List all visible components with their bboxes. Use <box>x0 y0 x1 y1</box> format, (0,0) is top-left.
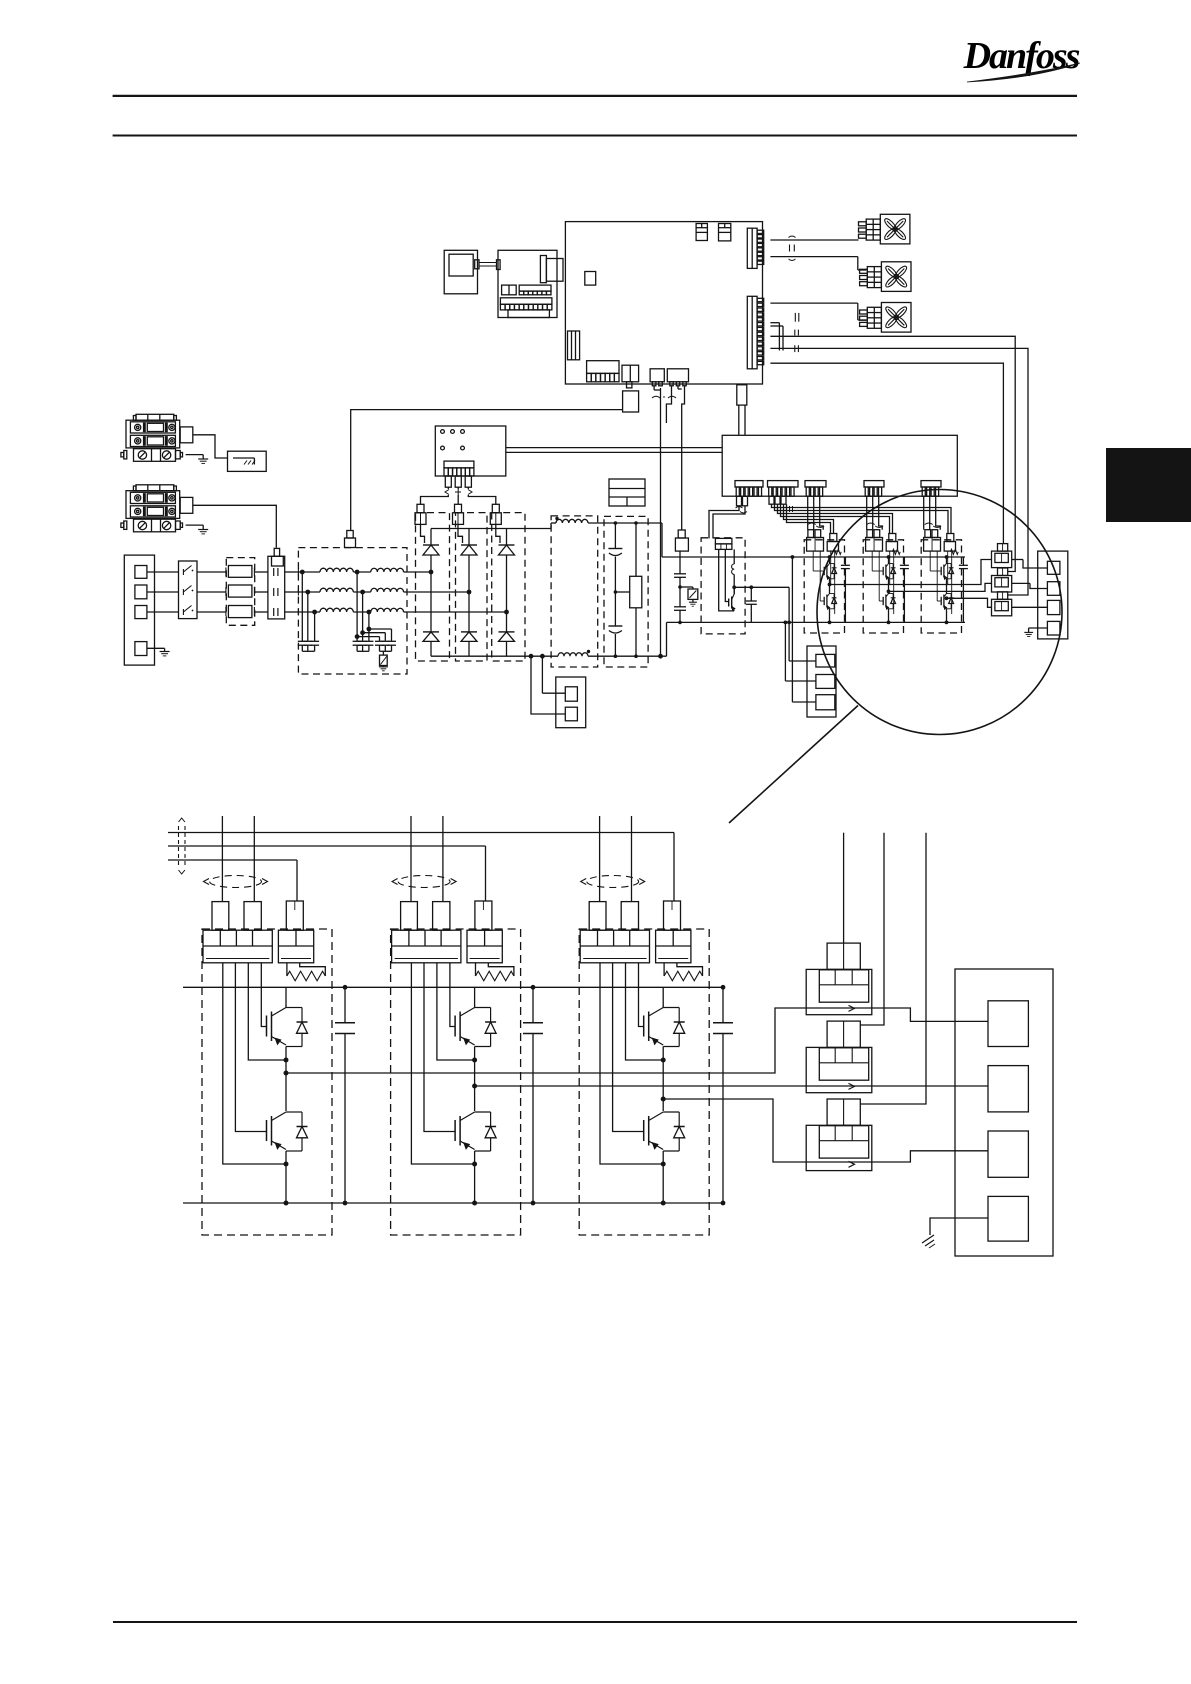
Danfoss logo <box>963 35 1080 82</box>
IGBT bottom module 1 <box>820 551 836 624</box>
choke 2 through wire <box>1012 583 1048 588</box>
snubber capacitor module 3 <box>959 557 968 622</box>
cooling fan M2 <box>860 262 911 292</box>
fuse FU1 <box>226 566 255 578</box>
card A2 connector <box>540 256 563 283</box>
gate resistor M1 <box>287 963 325 981</box>
wire L3 to disconnect <box>147 611 179 613</box>
brake output line <box>732 585 789 589</box>
card A2 strip 1 <box>502 285 517 295</box>
driver plug M1a <box>212 902 229 931</box>
gate ribbon bus 2 <box>168 845 486 847</box>
sensor supply wire 3 <box>860 833 926 1104</box>
card A2 strip 2 <box>519 285 551 295</box>
shunt wire b <box>529 654 566 714</box>
Y-cap group 2 <box>353 570 374 652</box>
A3 edge connector <box>568 331 580 360</box>
module 3 mid junction <box>946 581 948 594</box>
snubber capacitor module 2 <box>900 557 909 622</box>
module 1 gate wires down <box>808 496 824 530</box>
fan wire twist marker 1 <box>789 236 796 261</box>
DC bus capacitor C2 <box>608 521 622 658</box>
PE detail ground <box>922 1218 988 1248</box>
DC+ bus detail <box>183 986 723 988</box>
mains terminal block X1 <box>124 555 154 665</box>
driver plug M2a <box>401 902 418 931</box>
leg M1 midpoint <box>284 1047 289 1112</box>
gate resistor block M1 <box>278 930 313 963</box>
brake gate wires <box>719 549 735 611</box>
svg-text:Danfoss: Danfoss <box>963 35 1080 77</box>
module 1 mid junction <box>829 581 831 594</box>
wire c2 pair to module 2 <box>778 504 893 533</box>
ground F1 <box>186 455 209 464</box>
driver plug M1b <box>244 902 261 931</box>
brake current sensor box <box>807 646 836 717</box>
sensor T1 through line <box>806 1007 872 1009</box>
motor terminal block detail <box>955 969 1053 1256</box>
driver plug M3c <box>664 901 681 930</box>
DC- bus detail <box>183 1202 723 1204</box>
wire A3 to choke 3 <box>770 348 1028 595</box>
rectifier diode 3 <box>499 612 515 656</box>
wire c1 to brake plug a <box>709 506 739 539</box>
terminal PE <box>135 642 147 656</box>
DC- bus rectifier <box>431 655 558 657</box>
wire phase1 extension <box>407 571 431 573</box>
DC bus capacitor C1 <box>608 523 622 626</box>
A3 wire loop <box>770 323 783 351</box>
card A1 gate plugs <box>445 476 471 487</box>
RFI choke L2a <box>320 588 353 592</box>
terminal V <box>1047 582 1060 596</box>
sensor T1 output <box>872 1008 988 1021</box>
contactor contact pole 2 <box>274 588 278 596</box>
inverter DC+ bus <box>804 556 965 558</box>
control card A3 <box>565 222 762 384</box>
A3 comb s4 <box>667 369 688 389</box>
terminal V detail <box>988 1066 1028 1112</box>
gate ribbon bus 1 <box>168 832 674 834</box>
RFI phase line 2 <box>298 589 407 596</box>
driver plug M3a <box>589 902 606 931</box>
wire c1 to brake plug b <box>713 506 745 539</box>
wire L2 to disconnect <box>147 591 179 593</box>
rectifier module box 3 (dashed) <box>492 513 525 661</box>
soft charge contactor K1 <box>268 556 285 619</box>
leg M2 emitter <box>472 1151 477 1206</box>
gate wire to SCR2 <box>457 487 459 504</box>
phase W routing <box>663 1099 806 1162</box>
A3 right connector 1 <box>747 228 763 268</box>
contactor contact pole 1 <box>274 568 278 576</box>
wire pole3 to fuse <box>197 611 226 613</box>
A3 right connector 2 <box>747 296 763 369</box>
card A1 pads <box>441 430 465 450</box>
brake sense wire 2 <box>784 621 816 682</box>
brake chopper box (dashed) <box>701 538 745 634</box>
DC+ sense plug <box>675 386 688 551</box>
wire K1 pole1 to RFI <box>285 571 299 573</box>
current shunt module <box>556 677 586 728</box>
Y-cap group 3 feeders <box>355 627 392 642</box>
wire F2 to soft-charge contactor <box>193 505 276 548</box>
LCP keypad <box>444 250 477 293</box>
A3 connector grid 1 <box>696 224 707 241</box>
gate wire twist marker <box>445 489 472 496</box>
gate driver block M2 <box>392 930 461 963</box>
wire pole1 to fuse <box>197 571 226 573</box>
midpoint clamp capacitor Ca <box>674 551 686 587</box>
wire fuse1 out <box>255 571 268 573</box>
IGBT top M3 <box>644 1006 685 1047</box>
fuse FU2 <box>226 585 255 597</box>
A3 comb s2 <box>622 365 639 388</box>
brake collector choke <box>732 549 735 594</box>
motor terminal block X2 <box>1038 551 1068 639</box>
gate resistor M3 <box>664 963 702 981</box>
SCR 2 <box>458 524 477 592</box>
fuse FU3 <box>226 606 255 618</box>
driver plug M2b <box>433 902 450 931</box>
terminal W detail <box>988 1131 1028 1177</box>
wire fuse2 out <box>255 591 268 593</box>
phase W output <box>945 596 992 607</box>
driver plug M1c <box>286 901 303 930</box>
module M2 dashed box <box>391 929 521 1235</box>
balance resistor R2 <box>630 521 642 658</box>
card A2 strip 3 <box>500 298 552 310</box>
IGBT bottom M2 <box>455 1112 496 1151</box>
module M2 gate drop c <box>485 846 487 901</box>
detail magnifier circle <box>817 490 1062 735</box>
disconnect switch S1 <box>179 561 198 619</box>
sensor T2 output <box>872 1085 988 1087</box>
RFI phase line 3 <box>298 609 407 616</box>
wire c2 pair to module 3 <box>772 504 952 533</box>
terminal L2 <box>135 585 147 599</box>
leg M2 collector <box>474 987 476 1006</box>
module 1 gate resistor <box>834 549 842 554</box>
wire phase3 extension <box>407 611 507 613</box>
wire F1 to soft-charge resistor <box>193 435 228 458</box>
IGBT top module 3 <box>930 551 953 581</box>
module 2 gate wires down <box>867 496 883 530</box>
module M2 gate drop b <box>442 816 444 902</box>
terminal U <box>1047 561 1060 574</box>
wire K1 pole3 to RFI <box>285 611 299 613</box>
terminal L1 <box>135 566 147 579</box>
module 3 gate plug left <box>924 530 941 551</box>
phase U routing <box>286 1008 806 1073</box>
module 3 leg top <box>945 555 949 563</box>
phase V output <box>887 583 992 593</box>
module M3 dashed box <box>579 929 709 1235</box>
gate driver block M1 <box>203 930 272 963</box>
driver pins M1 <box>223 963 286 1164</box>
switch blade pole 1 <box>183 566 193 576</box>
gate resistor block M3 <box>656 930 691 963</box>
phase tap 2 <box>467 590 472 595</box>
ground F2 <box>186 525 209 534</box>
sensor T1 plug <box>827 943 860 969</box>
module M1 gate drop c <box>296 860 298 901</box>
terminal W <box>1047 600 1060 614</box>
IGBT bottom module 3 <box>937 551 953 624</box>
gate resistor M2 <box>476 963 514 981</box>
module M1 dashed box <box>202 929 332 1235</box>
current sensor T2 <box>806 1047 872 1092</box>
current sensor T3 <box>806 1125 872 1170</box>
module 2 gate resistor <box>893 549 901 554</box>
gate driver block M3 <box>580 930 649 963</box>
sensor supply wire 1 <box>843 833 845 943</box>
leg M1 emitter <box>284 1151 289 1206</box>
power card connector c4 <box>864 481 884 497</box>
DC choke L- winding <box>558 650 590 656</box>
module M2 twist ellipse <box>392 876 456 888</box>
module M2 gate drop a <box>410 816 412 902</box>
current sensor T1 <box>806 969 872 1014</box>
power card connector c3 <box>805 481 826 497</box>
detail pointer line <box>729 706 858 824</box>
leg M2 midpoint <box>472 1047 477 1112</box>
A3 comb s1 <box>587 361 619 382</box>
IGBT top module 1 <box>813 551 836 581</box>
power card connector c1 <box>735 481 763 497</box>
PE out ground <box>1024 628 1047 636</box>
LCP cable <box>475 260 500 270</box>
brake snubber capacitor <box>746 585 757 622</box>
cap midpoint tap <box>614 590 630 594</box>
clamp MOV <box>680 587 698 606</box>
wire A3 to choke 2 <box>770 336 1015 571</box>
contactor contact pole 3 <box>274 608 278 616</box>
DC link capacitor C1 detail <box>335 985 355 1206</box>
module 2 mid junction <box>888 581 890 594</box>
DC link capacitor C2 detail <box>523 985 543 1206</box>
wire A3 to choke 1 <box>770 363 1003 544</box>
mains fuse box (dashed) <box>226 558 254 626</box>
module 3 gate resistor <box>951 549 959 554</box>
module 1 leg top <box>828 555 832 563</box>
leg M3 midpoint <box>661 1047 666 1112</box>
SCR gate plug 1 <box>415 504 426 524</box>
gate wire to SCR1 <box>421 487 449 504</box>
output choke FB1 <box>992 544 1012 568</box>
A3 connector grid 2 <box>719 224 731 241</box>
sensor T2 plug <box>827 1021 860 1047</box>
brake driver plug <box>715 538 732 549</box>
leg M3 emitter <box>661 1151 666 1206</box>
power card connector c2 <box>768 481 799 497</box>
rectifier module box 2 (dashed) <box>456 513 488 661</box>
brake sense wire 1 <box>789 587 816 661</box>
c1 twist marker <box>736 507 748 514</box>
A3 comb s3 <box>650 369 664 390</box>
IGBT top module 2 <box>872 551 895 581</box>
fan M3 wire <box>770 303 866 320</box>
c2 twist marker <box>790 506 793 512</box>
module 2 emitter sense <box>890 551 894 614</box>
fuse block F2 (SMPS fuses) <box>121 485 193 532</box>
cooling fan M1 <box>859 214 910 244</box>
wire pole2 to fuse <box>197 591 226 593</box>
shunt wire a <box>540 654 565 693</box>
SCR gate plug 2 <box>453 504 464 524</box>
module 3 gate plug right <box>944 534 955 552</box>
module M3 twist ellipse <box>581 876 645 888</box>
wire K1 pole2 to RFI <box>285 591 299 593</box>
DC voltage sense wire b <box>666 386 671 423</box>
module M1 gate drop b <box>253 816 255 902</box>
card A2 strip 4 <box>508 310 549 318</box>
A3 chip <box>585 272 596 286</box>
module 3 plug twist marker <box>925 523 942 528</box>
driver pins M2 <box>411 963 474 1164</box>
brake IGBT Q7 <box>729 587 735 611</box>
RFI choke L3b <box>371 608 404 612</box>
DC link capacitor C3 detail <box>713 985 733 1206</box>
wire fuse3 out <box>255 611 268 613</box>
fan wire twist marker 3 <box>795 330 799 336</box>
module 1 plug twist marker <box>808 523 825 528</box>
module 2 gate plug right <box>886 534 897 552</box>
terminal U detail <box>988 1001 1028 1047</box>
fan M2 wire <box>770 257 866 270</box>
Y-cap group 3 <box>375 641 396 651</box>
gate wire to SCR3 <box>468 487 496 504</box>
sensor supply wire 2 <box>860 833 884 1025</box>
module M1 twist ellipse <box>204 876 268 888</box>
soft charge card A1 <box>435 426 506 476</box>
SCR 1 <box>421 524 440 572</box>
soft charge resistor R1 <box>228 451 267 471</box>
header rule 1 <box>113 95 1077 97</box>
module 1 gate plug left <box>807 530 824 551</box>
phase tap 3 <box>504 610 509 615</box>
rectifier diode 1 <box>423 572 439 656</box>
wire PE to ground <box>147 648 170 656</box>
IGBT top M2 <box>455 1006 496 1047</box>
sensor T3 through line <box>806 1161 872 1163</box>
rectifier module box 1 (dashed) <box>416 513 450 661</box>
gate resistor block M2 <box>467 930 502 963</box>
IGBT bottom module 2 <box>879 551 895 624</box>
sensor T3 plug <box>827 1099 860 1125</box>
module 3 gate wires down <box>924 496 941 530</box>
phase V routing <box>475 1085 806 1087</box>
phase tap 1 <box>429 570 434 575</box>
A3 aux box <box>623 391 639 412</box>
RFI choke L3a <box>320 608 353 612</box>
module 2 plug twist marker <box>867 523 884 528</box>
module 1 emitter sense <box>831 551 835 614</box>
module 1 gate plug right <box>827 534 838 552</box>
RFI choke L2b <box>371 588 404 592</box>
module 3 emitter sense <box>948 551 952 614</box>
RFI plug to control card <box>345 410 623 548</box>
RFI choke L1b <box>371 568 404 572</box>
DC- rail segment <box>588 622 804 656</box>
choke 1 through wire <box>1012 560 1048 569</box>
snubber capacitor module 1 <box>841 557 850 622</box>
DC+ rail to inverter <box>588 523 804 557</box>
SCR 3 <box>496 524 515 612</box>
leg M3 collector <box>662 987 664 1006</box>
driver pins M3 <box>600 963 663 1164</box>
power card A4 <box>722 435 957 496</box>
DC voltage sense wire a <box>658 388 663 659</box>
terminal L3 <box>135 606 147 619</box>
inverter DC- bus <box>804 621 965 623</box>
module 2 gate plug left <box>866 530 883 551</box>
card A1 bottom connector <box>444 461 474 476</box>
module M1 gate drop a <box>221 816 223 902</box>
module M3 gate drop b <box>631 816 633 902</box>
output choke FB3 <box>992 592 1012 616</box>
driver plug M2c <box>475 901 492 930</box>
ribbon cable marker <box>179 818 186 874</box>
IGBT top M1 <box>267 1006 308 1047</box>
terminal PE out <box>1047 621 1060 635</box>
DC+ bus rectifier <box>431 523 556 529</box>
terminal PE detail <box>988 1196 1028 1241</box>
wire c2 pair to module 1 <box>784 504 834 533</box>
RFI phase line 1 <box>298 569 407 576</box>
inverter module box 3 (dashed) <box>921 540 961 633</box>
module M3 gate drop a <box>599 816 601 902</box>
sensor T2 through line <box>806 1085 872 1087</box>
leg M1 collector <box>285 987 287 1006</box>
RFI filter box (dashed) <box>298 548 407 674</box>
control panel card A2 <box>498 250 557 317</box>
c2 plugs <box>769 496 786 504</box>
A3 to power card plug <box>737 385 747 436</box>
Y-cap group 1 <box>298 570 319 652</box>
inverter module box 1 (dashed) <box>804 540 844 633</box>
capacitor bank box (dashed) <box>604 516 648 667</box>
rectifier diode 2 <box>461 592 477 656</box>
module 2 leg top <box>887 555 891 563</box>
SCR gate plug 3 <box>490 504 501 524</box>
IGBT bottom M3 <box>644 1112 685 1151</box>
cooling fan M3 <box>860 303 911 333</box>
output choke FB2 <box>992 568 1012 592</box>
s3 s4 twist marker <box>652 396 676 398</box>
DC choke box (dashed) <box>551 516 598 667</box>
wire L1 to disconnect <box>147 571 179 573</box>
power card connector c5 <box>921 481 941 497</box>
fan wire twist marker 2 <box>795 313 799 322</box>
RFI MOV to ground <box>379 651 388 671</box>
fan M1 wire <box>770 239 858 241</box>
footer rule <box>113 1621 1077 1623</box>
midpoint clamp capacitor Cb <box>674 585 686 624</box>
driver plug M3b <box>621 902 638 931</box>
RFI choke L1a <box>320 568 353 572</box>
DC link label box <box>609 479 645 506</box>
brake sense wire 3 <box>791 555 816 702</box>
phase U output <box>828 560 992 587</box>
c1 plugs <box>737 496 748 506</box>
card A1 to power card wires <box>506 448 722 453</box>
gate ribbon bus 3 <box>168 859 297 861</box>
choke 3 through wire <box>1012 606 1048 608</box>
module M3 gate drop c <box>673 833 675 902</box>
section tab <box>1106 448 1191 522</box>
inverter module box 2 (dashed) <box>863 540 903 633</box>
